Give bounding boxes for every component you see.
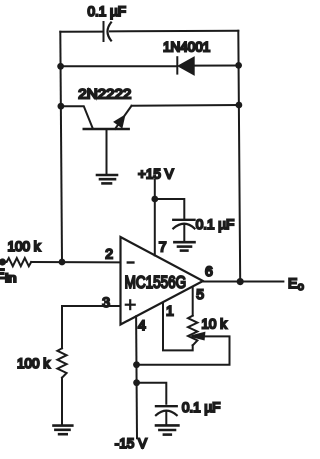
- node emitter rail: [236, 102, 243, 109]
- svg-text:1N4001: 1N4001: [163, 40, 210, 55]
- wire input to pin2: [31, 261, 120, 263]
- node output: [237, 278, 244, 285]
- svg-text:5: 5: [196, 286, 204, 302]
- wire +15V to bypass cap: [155, 199, 185, 220]
- wire output: [203, 281, 283, 283]
- wire transistor emitter to rail: [132, 104, 239, 107]
- node wiper junction: [133, 361, 140, 368]
- diode D1 1N4001: [177, 57, 193, 74]
- svg-text:100 k: 100 k: [8, 239, 41, 254]
- svg-text:E: E: [0, 266, 5, 282]
- wire diode row: [61, 65, 177, 67]
- node diode right: [235, 62, 242, 69]
- potentiometer R3 10k: [188, 316, 197, 346]
- svg-text:4: 4: [138, 317, 146, 333]
- svg-text:6: 6: [205, 263, 213, 279]
- wire pin 4 to -15V: [135, 316, 138, 438]
- svg-text:2N2222: 2N2222: [78, 86, 131, 102]
- svg-text:0.1 µF: 0.1 µF: [196, 217, 235, 232]
- wire diode row right: [194, 65, 239, 67]
- svg-text:100 k: 100 k: [17, 356, 50, 371]
- op-amp plus sign: [126, 300, 135, 309]
- node input junction: [59, 259, 66, 266]
- op-amp minus sign: [128, 261, 134, 263]
- node +15V tap: [151, 196, 158, 203]
- pot wiper arrow: [192, 333, 205, 339]
- svg-text:7: 7: [159, 238, 167, 254]
- transistor Q1 2N2222: [84, 106, 132, 174]
- svg-text:0.1 µF: 0.1 µF: [88, 4, 127, 19]
- wire top feedback: [60, 31, 102, 33]
- resistor R2 100k: [57, 348, 66, 377]
- svg-text:2: 2: [105, 245, 113, 261]
- wire R2 to ground: [61, 378, 63, 425]
- node bypass junction: [133, 379, 140, 386]
- capacitor C2 0.1 uF bypass: [173, 220, 194, 242]
- node diode left: [57, 63, 64, 70]
- ground C2: [174, 242, 194, 250]
- svg-text:0.1 µF: 0.1 µF: [182, 400, 221, 415]
- svg-text:o: o: [298, 281, 304, 293]
- wire pot bottom to pin 1: [163, 303, 193, 350]
- svg-text:10 k: 10 k: [201, 317, 227, 332]
- svg-text:E: E: [288, 275, 297, 291]
- wire top feedback right: [110, 30, 238, 33]
- wire transistor collector: [61, 106, 93, 128]
- wire left rail: [60, 32, 62, 262]
- svg-text:3: 3: [102, 294, 110, 310]
- ground R2: [54, 426, 73, 435]
- svg-text:-15 V: -15 V: [115, 436, 147, 451]
- wire right rail: [238, 31, 240, 282]
- capacitor C1 0.1 uF: [104, 22, 112, 41]
- wire +15V to pin 7: [154, 180, 156, 256]
- node input terminal: [0, 258, 6, 265]
- capacitor C3 0.1 uF bypass: [156, 406, 177, 424]
- ground transistor base: [97, 175, 117, 183]
- svg-text:+15 V: +15 V: [138, 167, 174, 182]
- resistor R1 100k: [3, 258, 32, 266]
- svg-text:in: in: [5, 271, 16, 285]
- svg-text:MC1556G: MC1556G: [125, 272, 186, 292]
- node collector: [58, 103, 65, 110]
- wire pin3 to R2: [62, 306, 121, 348]
- svg-text:1: 1: [166, 303, 174, 319]
- wire -15V to bypass cap: [137, 383, 167, 404]
- wire wiper to V- rail: [137, 336, 230, 364]
- wire pin 5: [192, 288, 194, 316]
- op-amp U1 MC1556G: [121, 237, 204, 325]
- ground C3: [156, 425, 178, 434]
